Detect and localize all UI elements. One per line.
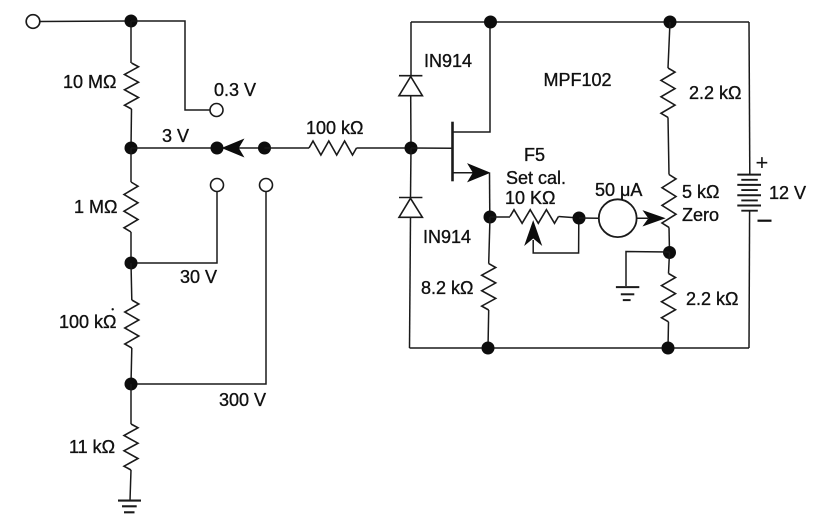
label battery - polarity (758, 220, 772, 222)
svg-text:12 V: 12 V (769, 183, 806, 203)
wire node D to R5 (130, 384, 132, 424)
diode D1 IN914 (upper) (399, 76, 422, 96)
svg-text:50 μA: 50 μA (595, 180, 642, 200)
wire R6 to bottom rail (487, 310, 490, 348)
wire source to node F (489, 173, 491, 217)
svg-text:30 V: 30 V (180, 267, 217, 287)
node bottom rail right junction (662, 342, 675, 355)
wire switch to R2 (265, 147, 310, 149)
svg-text:Set cal.: Set cal. (506, 168, 566, 188)
wire node F to R7 (490, 216, 510, 218)
node F (source node) (484, 211, 497, 224)
wire switch stem (226, 147, 265, 149)
node top-rail/drain junction (484, 16, 497, 29)
node H (zero-adj node) (663, 246, 676, 259)
wire top rail to D1 (410, 22, 412, 76)
resistor R1 10 Mohm (125, 63, 139, 109)
wire node B to R3 (130, 148, 132, 182)
svg-text:10 KΩ: 10 KΩ (505, 188, 555, 208)
wire D2 to bottom rail (410, 217, 411, 348)
pot R8 wiper arrow (points right) (644, 211, 665, 226)
resistor R4 100 kohm (divider) (125, 300, 139, 348)
resistor R5 11 kohm (124, 424, 138, 470)
wire node A to 0.3V terminal (131, 21, 210, 110)
transistor Q1 channel bar (451, 122, 454, 182)
resistor R10 2.2 kohm (lower) (662, 274, 676, 322)
wire node H to ground G2 (626, 252, 670, 287)
wire terminal 300V to node D (131, 192, 266, 385)
wire R7 to node G (559, 217, 580, 219)
wire node H to R10 (669, 253, 670, 274)
svg-text:300 V: 300 V (219, 390, 266, 410)
resistor R9 2.2 kohm (upper) (661, 68, 675, 117)
wire node F to R6 (489, 217, 490, 264)
terminal 300V (260, 179, 273, 192)
terminal 30V (211, 179, 224, 192)
switch contact dot 3V (211, 142, 224, 155)
wire meter to wiper arrow (637, 217, 648, 219)
transistor Q1 source lead (453, 172, 477, 174)
wire top rail to R9 (668, 22, 670, 68)
terminal J1 (input probe) (26, 15, 40, 29)
wire node A to R1 (130, 21, 132, 63)
node bottom rail left junction (482, 342, 495, 355)
resistor R6 8.2 kohm (482, 264, 496, 310)
svg-text:F5: F5 (524, 145, 545, 165)
wire D1 to node E (410, 96, 412, 148)
wire node C to R4 (130, 263, 133, 300)
wire terminal 30V to node C (131, 192, 217, 264)
resistor R3 1 Mohm (124, 182, 138, 232)
potentiometer R8 5 kohm body (662, 175, 676, 228)
meter M1 50uA (599, 199, 637, 237)
node E (gate node) (405, 142, 418, 155)
svg-text:MPF102: MPF102 (544, 70, 612, 90)
node D junction (125, 378, 138, 391)
node A junction (125, 15, 138, 28)
switch pivot dot (258, 142, 271, 155)
svg-text:10 MΩ: 10 MΩ (63, 72, 116, 92)
node C junction (125, 257, 138, 270)
battery BT1 12V (737, 175, 761, 211)
wire J1 to node A (40, 20, 131, 23)
wire R10 to bottom rail (667, 322, 670, 348)
wire R5 to ground (130, 470, 131, 501)
terminal 0.3V (210, 104, 223, 117)
svg-text:Zero: Zero (682, 205, 719, 225)
diode D2 IN914 (lower) (399, 198, 422, 218)
wire R3 to node C (130, 232, 132, 263)
wire node E to D2 (410, 148, 413, 198)
svg-text:0.3 V: 0.3 V (214, 80, 256, 100)
node G junction (573, 212, 586, 225)
wire R1 to node B (130, 109, 133, 148)
svg-text:IN914: IN914 (424, 51, 472, 71)
potentiometer R7 10 Kohm body (510, 210, 559, 224)
speck artifact (112, 308, 114, 310)
top rail wire (411, 21, 749, 23)
node B (3 V node) (125, 142, 138, 155)
svg-text:3 V: 3 V (162, 126, 189, 146)
bottom rail wire (410, 347, 750, 349)
svg-text:11 kΩ: 11 kΩ (69, 437, 115, 457)
wire battery - to bottom rail (748, 211, 751, 348)
ground G1 (118, 501, 141, 513)
ground G2 (616, 287, 639, 300)
svg-text:8.2 kΩ: 8.2 kΩ (421, 278, 473, 298)
wire node G to meter (579, 217, 599, 219)
transistor Q1 drain lead (453, 22, 491, 132)
wire top rail to battery + (748, 22, 751, 174)
pot R7 wiper arrow (points up) (525, 221, 541, 245)
svg-text:2.2 kΩ: 2.2 kΩ (689, 83, 741, 103)
svg-text:5 kΩ: 5 kΩ (682, 182, 719, 202)
wire R4 to node D (130, 348, 133, 384)
wire R8 to node H (668, 227, 671, 252)
pot R7 wiper stem wire (533, 218, 579, 253)
svg-text:100 kΩ: 100 kΩ (306, 118, 364, 138)
node top-rail right junction (664, 16, 677, 29)
wire R9 to R8 (668, 117, 669, 174)
wire node B to switch contact (131, 147, 217, 149)
wire R2 to node E (357, 147, 412, 149)
transistor Q1 MPF102 gate lead (411, 147, 453, 149)
svg-text:IN914: IN914 (423, 227, 471, 247)
resistor R2 100 kohm (gate series) (309, 141, 357, 155)
svg-text:2.2 kΩ: 2.2 kΩ (686, 289, 738, 309)
switch wiper arrow (points left) (223, 139, 244, 156)
svg-text:100 kΩ: 100 kΩ (59, 312, 117, 332)
svg-text:+: + (756, 150, 769, 175)
transistor Q1 source arrow (points right) (468, 164, 490, 182)
svg-text:1 MΩ: 1 MΩ (74, 197, 117, 217)
